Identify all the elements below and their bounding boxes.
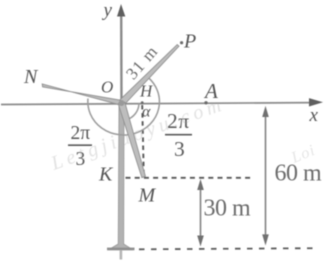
blade ON — [42, 84, 122, 106]
x-axis arrowhead — [309, 98, 323, 106]
svg-text:α: α — [142, 104, 151, 121]
tower pole — [108, 103, 134, 250]
svg-text:2π: 2π — [71, 123, 91, 144]
y-axis arrowhead — [117, 4, 125, 17]
svg-text:H: H — [139, 82, 154, 101]
tower base spike — [120, 250, 123, 260]
svg-text:M: M — [138, 185, 157, 207]
60m dimension arrow — [265, 109, 267, 243]
tower base bar — [107, 248, 135, 251]
svg-text:30 m: 30 m — [204, 196, 252, 222]
horizontal dashed line through K,M — [126, 177, 255, 179]
y-axis — [120, 14, 123, 103]
svg-text:60 m: 60 m — [275, 161, 323, 187]
svg-text:P: P — [183, 31, 196, 53]
vertical dashed line H to M — [142, 105, 144, 177]
svg-text:A: A — [203, 79, 218, 103]
hub at O — [119, 100, 125, 106]
svg-text:3: 3 — [76, 149, 86, 170]
svg-text:3: 3 — [174, 137, 185, 161]
angle arc 2pi/3 big — [88, 78, 160, 136]
svg-text:x: x — [309, 105, 319, 126]
point A dot — [204, 101, 207, 104]
angle arc alpha — [126, 103, 139, 120]
30m dimension arrow — [200, 182, 202, 244]
x-axis — [1, 103, 313, 105]
blade OP — [119, 45, 179, 105]
svg-text:y: y — [102, 0, 113, 21]
svg-text:O: O — [101, 78, 113, 97]
svg-text:31 m: 31 m — [122, 42, 162, 84]
svg-text:K: K — [98, 164, 114, 186]
ground dashed line — [139, 248, 316, 249]
point H dot — [141, 101, 144, 104]
svg-text:2π: 2π — [167, 109, 190, 133]
svg-text:N: N — [23, 66, 39, 88]
blade OM — [118, 102, 145, 178]
point P dot — [180, 41, 183, 44]
